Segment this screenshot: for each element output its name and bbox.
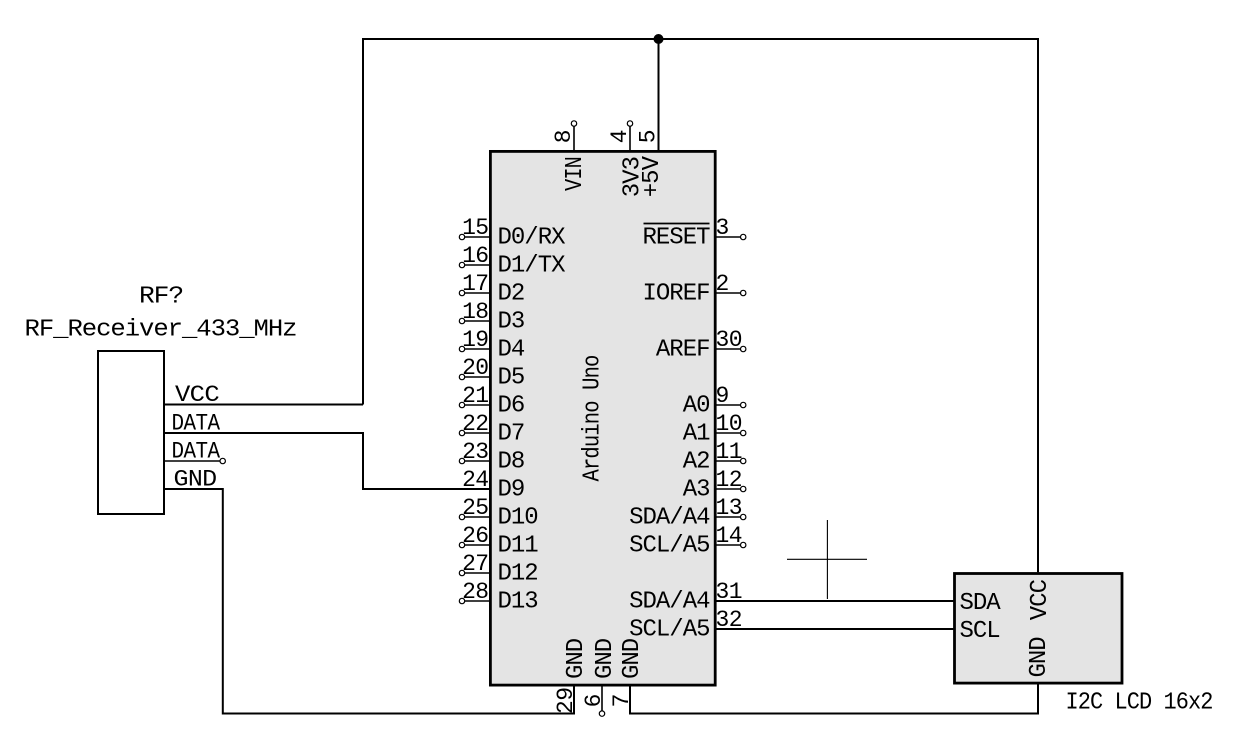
svg-text:D4: D4 xyxy=(498,337,525,364)
Arduino pin 32 (SCL/A5) right xyxy=(629,607,742,644)
Arduino pin 30 (AREF) right xyxy=(656,327,746,364)
svg-text:6: 6 xyxy=(581,694,607,707)
LCD pin SCL label xyxy=(960,618,1000,645)
Arduino pin 3 (RESET) right xyxy=(642,215,745,252)
wire RF DATA to Arduino D9 pin 24 xyxy=(165,433,490,489)
Arduino pin 19 (D4) left xyxy=(459,327,525,364)
svg-text:GND: GND xyxy=(619,638,646,679)
svg-text:RF?: RF? xyxy=(139,284,183,311)
Arduino pin 4 (3V3) top xyxy=(607,121,647,197)
Arduino pin 20 (D5) left xyxy=(459,355,524,392)
svg-text:Arduino Uno: Arduino Uno xyxy=(580,356,607,482)
wire +5V drop to Arduino pin 5 xyxy=(658,39,660,151)
svg-text:11: 11 xyxy=(716,439,742,465)
Arduino pin 21 (D6) left xyxy=(459,383,524,420)
RF pin VCC label xyxy=(175,382,219,408)
svg-text:20: 20 xyxy=(462,355,488,381)
label RF_Receiver_433_MHz value xyxy=(25,316,297,343)
I2C LCD 16x2 body xyxy=(955,574,1123,684)
junction +5V node xyxy=(654,34,664,44)
Arduino pin 6 (GND) bottom GND xyxy=(581,638,619,716)
Arduino pin 9 (A0) right xyxy=(683,383,746,420)
Arduino pin 14 (SCL/A5) right xyxy=(629,523,746,560)
Arduino pin 15 (D0/RX) left xyxy=(459,215,565,252)
svg-text:14: 14 xyxy=(716,523,742,549)
RF pin GND label xyxy=(174,467,217,493)
svg-text:30: 30 xyxy=(716,327,742,353)
svg-text:DATA: DATA xyxy=(172,411,221,437)
svg-text:13: 13 xyxy=(716,495,742,521)
svg-text:D2: D2 xyxy=(498,281,525,308)
svg-text:28: 28 xyxy=(462,579,488,605)
svg-text:32: 32 xyxy=(716,607,742,633)
svg-text:GND: GND xyxy=(563,638,590,679)
wire Arduino SCL/A5 pin 32 to LCD SCL xyxy=(715,628,954,630)
svg-text:8: 8 xyxy=(551,130,577,143)
svg-text:3: 3 xyxy=(716,215,729,241)
label RF? reference designator xyxy=(139,284,183,311)
svg-text:GND: GND xyxy=(174,467,217,493)
Arduino pin 28 (D13) left xyxy=(459,579,537,616)
svg-text:I2C LCD 16x2: I2C LCD 16x2 xyxy=(1066,690,1213,717)
svg-text:VIN: VIN xyxy=(562,157,589,191)
svg-text:SDA/A4: SDA/A4 xyxy=(629,589,710,616)
label I2C LCD 16x2 xyxy=(1066,690,1213,717)
svg-text:SCL: SCL xyxy=(960,618,1000,645)
LCD pin VCC label xyxy=(1027,579,1054,620)
wire +5V top bus from RF VCC riser to LCD VCC xyxy=(363,39,1038,572)
svg-text:VCC: VCC xyxy=(175,382,219,408)
svg-text:25: 25 xyxy=(462,495,488,521)
svg-text:9: 9 xyxy=(716,383,729,409)
Arduino pin 31 (SDA/A4) right xyxy=(629,579,742,616)
svg-text:SCL/A5: SCL/A5 xyxy=(629,533,709,560)
Arduino pin 11 (A2) right xyxy=(683,439,746,476)
svg-text:4: 4 xyxy=(607,130,633,143)
Arduino pin 7 (GND) bottom GND xyxy=(609,638,646,707)
Arduino pin 17 (D2) left xyxy=(459,271,524,308)
svg-text:A1: A1 xyxy=(683,421,710,448)
Arduino pin 12 (A3) right xyxy=(683,467,746,504)
Arduino pin 27 (D12) left xyxy=(459,551,537,588)
svg-text:RF_Receiver_433_MHz: RF_Receiver_433_MHz xyxy=(25,316,297,343)
RF receiver RF? body xyxy=(98,351,164,514)
svg-text:D7: D7 xyxy=(498,421,525,448)
Arduino pin 2 (IOREF) right xyxy=(642,271,745,308)
svg-text:D12: D12 xyxy=(498,561,538,588)
wire RF GND to Arduino GND pin 29 xyxy=(165,489,574,714)
svg-text:D10: D10 xyxy=(498,505,538,532)
svg-text:D9: D9 xyxy=(498,477,525,504)
svg-text:A2: A2 xyxy=(683,449,710,476)
svg-text:A0: A0 xyxy=(683,393,710,420)
svg-text:SDA/A4: SDA/A4 xyxy=(629,505,710,532)
svg-text:D5: D5 xyxy=(498,365,525,392)
Arduino pin 18 (D3) left xyxy=(459,299,524,336)
Arduino pin 25 (D10) left xyxy=(459,495,537,532)
svg-text:26: 26 xyxy=(462,523,488,549)
LCD pin SDA label xyxy=(960,590,1002,617)
Arduino pin 5 (+5V) top xyxy=(636,130,667,197)
Arduino pin 23 (D8) left xyxy=(459,439,524,476)
wire RF VCC to +5V riser xyxy=(165,404,363,406)
svg-text:VCC: VCC xyxy=(1027,579,1054,620)
svg-text:22: 22 xyxy=(462,411,488,437)
svg-text:15: 15 xyxy=(462,215,488,241)
svg-text:D3: D3 xyxy=(498,309,525,336)
Arduino pin 16 (D1/TX) left xyxy=(459,243,565,280)
svg-text:5: 5 xyxy=(636,130,662,143)
svg-text:D6: D6 xyxy=(498,393,525,420)
Arduino pin 29 (GND) bottom GND xyxy=(553,638,590,714)
svg-text:D1/TX: D1/TX xyxy=(498,253,566,280)
Arduino Uno body xyxy=(490,151,715,685)
svg-text:27: 27 xyxy=(462,551,488,577)
svg-text:A3: A3 xyxy=(683,477,710,504)
svg-text:18: 18 xyxy=(462,299,488,325)
svg-text:21: 21 xyxy=(462,383,488,409)
svg-text:17: 17 xyxy=(462,271,488,297)
svg-text:RESET: RESET xyxy=(642,225,710,252)
svg-text:D8: D8 xyxy=(498,449,525,476)
RF pin DATA label xyxy=(172,411,221,437)
svg-text:AREF: AREF xyxy=(656,337,710,364)
Arduino pin 8 (VIN) top xyxy=(551,121,589,191)
Arduino pin 22 (D7) left xyxy=(459,411,524,448)
svg-text:19: 19 xyxy=(462,327,488,353)
svg-text:D11: D11 xyxy=(498,533,539,560)
svg-text:D13: D13 xyxy=(498,589,538,616)
Arduino pin 13 (SDA/A4) right xyxy=(629,495,746,532)
Arduino pin 10 (A1) right xyxy=(683,411,746,448)
svg-text:GND: GND xyxy=(1026,637,1053,678)
crosshair cursor xyxy=(787,520,867,599)
svg-text:29: 29 xyxy=(553,688,579,714)
svg-text:23: 23 xyxy=(462,439,488,465)
svg-text:10: 10 xyxy=(716,411,742,437)
Arduino pin 26 (D11) left xyxy=(459,523,538,560)
RF pin DATA unconnected: label, stub, open end xyxy=(165,439,225,465)
wire Arduino GND pin 7 to LCD GND xyxy=(630,684,1038,714)
Arduino pin 24 (D9) left xyxy=(462,467,524,504)
wire Arduino SDA/A4 pin 31 to LCD SDA xyxy=(715,600,954,602)
svg-text:+5V: +5V xyxy=(639,155,666,197)
svg-text:12: 12 xyxy=(716,467,742,493)
LCD pin GND label xyxy=(1026,637,1053,678)
svg-text:D0/RX: D0/RX xyxy=(498,225,566,252)
svg-text:16: 16 xyxy=(462,243,488,269)
svg-text:24: 24 xyxy=(462,467,488,493)
svg-text:2: 2 xyxy=(716,271,729,297)
label Arduino Uno xyxy=(580,356,607,482)
svg-text:31: 31 xyxy=(716,579,742,605)
svg-text:GND: GND xyxy=(592,638,619,679)
svg-text:IOREF: IOREF xyxy=(642,281,709,308)
svg-text:SDA: SDA xyxy=(960,590,1002,617)
svg-text:7: 7 xyxy=(609,694,635,707)
